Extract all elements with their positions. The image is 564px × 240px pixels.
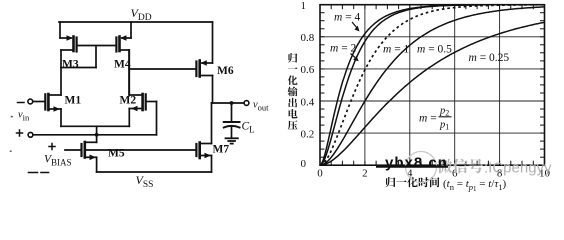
svg-text:m = 0.25: m = 0.25 bbox=[469, 52, 510, 64]
transistor M4 (PMOS mirror) bbox=[116, 22, 131, 95]
label m=2 with arrow bbox=[330, 43, 359, 62]
axis title y (Chinese, vertical) bbox=[288, 53, 297, 63]
wire tail to M5 drain bbox=[85, 126, 97, 142]
curve m=1 (dashed) bbox=[320, 5, 545, 165]
svg-text:m = 1: m = 1 bbox=[383, 44, 410, 56]
axis tick numbers y bbox=[301, 0, 315, 170]
wire vout node bbox=[212, 102, 245, 104]
svg-text:m = 2: m = 2 bbox=[330, 43, 357, 55]
curve m=0.5 bbox=[320, 7, 545, 165]
svg-text:0.6: 0.6 bbox=[301, 64, 315, 76]
transistor M1 (NMOS input -) bbox=[33, 94, 61, 126]
svg-text:M7: M7 bbox=[213, 144, 230, 156]
svg-text:M2: M2 bbox=[120, 95, 137, 107]
grid minor gridlines bbox=[320, 5, 545, 166]
label m=4 with arrow bbox=[334, 12, 361, 32]
node tail junction bbox=[95, 133, 99, 137]
transistor M3 (PMOS, diode-connected) bbox=[60, 22, 77, 95]
speck bbox=[10, 150, 12, 152]
svg-text:0: 0 bbox=[317, 168, 323, 180]
wire vin+ to M2 gate bbox=[33, 134, 157, 136]
transistor M5 (NMOS tail source) bbox=[65, 142, 97, 172]
svg-text:M6: M6 bbox=[217, 65, 234, 77]
curve m=2 bbox=[320, 5, 545, 166]
watermark stamp arc bbox=[406, 152, 437, 183]
wire differential pair tail bbox=[61, 125, 129, 127]
wire VDD rail bbox=[59, 21, 213, 23]
terminal vout bbox=[244, 101, 249, 106]
watermark WeChat id bbox=[437, 159, 452, 174]
svg-text:0.4: 0.4 bbox=[301, 96, 315, 108]
svg-text:0.8: 0.8 bbox=[301, 32, 315, 44]
terminal vin- bbox=[18, 99, 33, 104]
svg-text:M3: M3 bbox=[62, 59, 79, 71]
curve m=4 bbox=[320, 5, 545, 166]
plot border bbox=[320, 5, 545, 166]
capacitor CL bbox=[224, 103, 240, 138]
svg-text:ybx8.cn: ybx8.cn bbox=[385, 155, 448, 172]
transistor M2 (NMOS input +) bbox=[129, 50, 156, 135]
terminal vin+ bbox=[17, 130, 33, 137]
svg-text:0.2: 0.2 bbox=[301, 128, 315, 140]
svg-text:1: 1 bbox=[301, 0, 307, 12]
wire M3/M4 gate bus bbox=[77, 45, 117, 47]
svg-text:0: 0 bbox=[301, 158, 307, 170]
svg-text:vin: vin bbox=[18, 110, 30, 123]
wire VSS rail bbox=[97, 171, 212, 173]
svg-text:2: 2 bbox=[362, 168, 368, 180]
svg-text:M1: M1 bbox=[65, 95, 82, 107]
wire VBIAS bus to M7 gate bbox=[85, 149, 197, 151]
svg-text:m =: m = bbox=[419, 112, 437, 124]
label VBIAS + bbox=[49, 144, 55, 150]
axis ticks bbox=[320, 5, 545, 166]
svg-text:vout: vout bbox=[253, 100, 269, 113]
axis title x (Chinese + math) bbox=[385, 177, 395, 187]
label m = p2/p1 bbox=[419, 106, 452, 132]
curve m=0.25 bbox=[320, 22, 545, 165]
wire M4 drain to M6 gate bbox=[129, 68, 196, 70]
svg-text:m = 4: m = 4 bbox=[334, 12, 361, 24]
ground bbox=[226, 138, 238, 143]
transistor M6 (PMOS output) bbox=[196, 22, 212, 103]
watermark ybx8.cn bbox=[376, 155, 448, 172]
svg-text:m = 0.5: m = 0.5 bbox=[417, 44, 452, 56]
axis tick numbers x bbox=[317, 168, 550, 180]
wire M3 gate-drain (diode connection) bbox=[61, 46, 96, 68]
speck bbox=[11, 116, 13, 118]
label VBIAS - (dashes) bbox=[29, 172, 49, 174]
transistor M7 (NMOS output sink) bbox=[196, 103, 211, 172]
node vout-CL junction bbox=[230, 101, 234, 105]
svg-text::ICpengyy: :ICpengyy bbox=[484, 160, 552, 177]
